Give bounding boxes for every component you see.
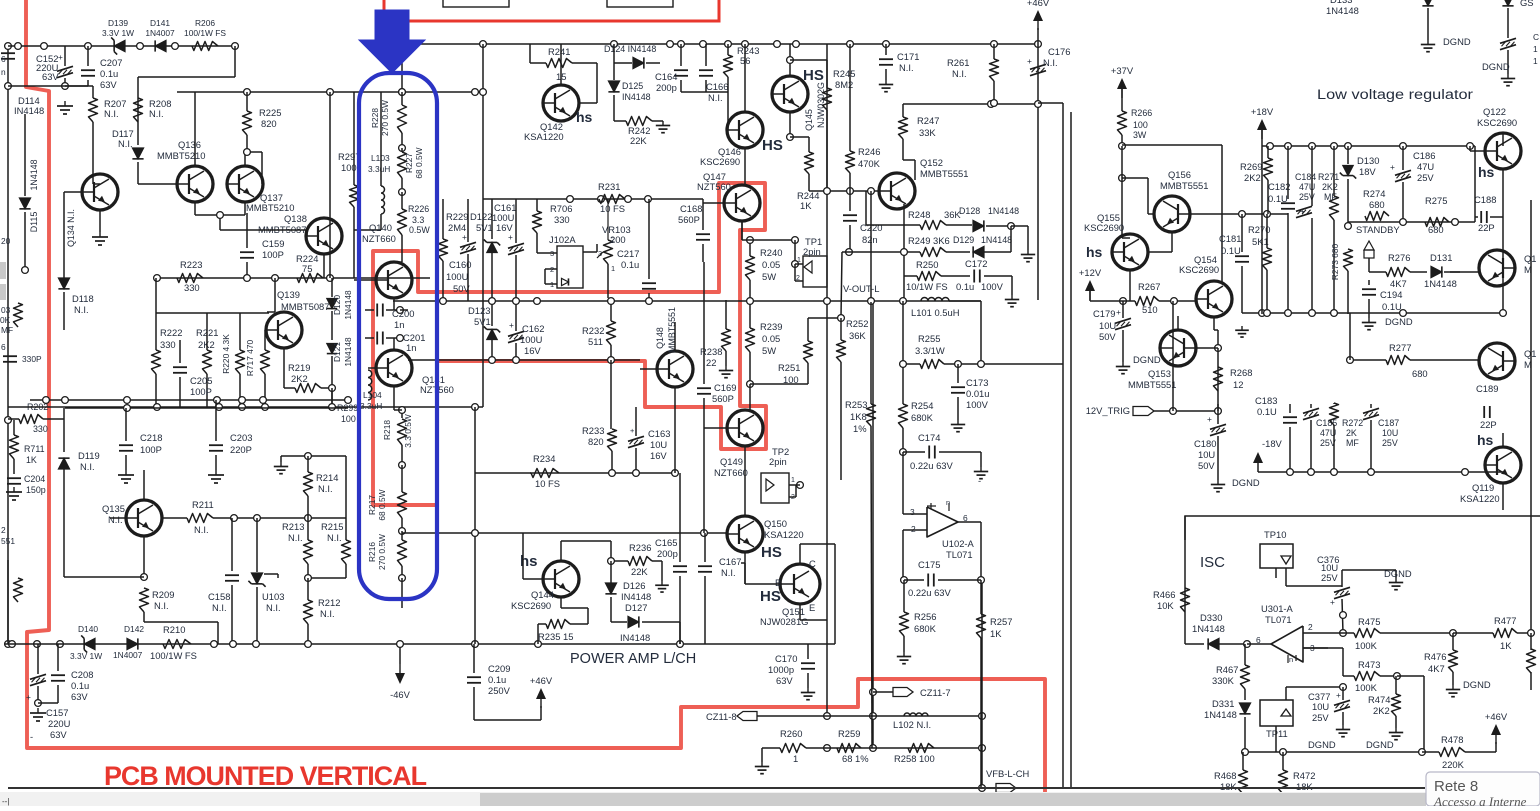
svg-text:100U: 100U: [446, 271, 469, 282]
svg-text:220U: 220U: [48, 718, 71, 729]
svg-text:C: C: [809, 558, 816, 569]
svg-text:330: 330: [554, 214, 570, 225]
svg-text:N.I.: N.I.: [108, 514, 123, 525]
svg-text:KSC2690: KSC2690: [700, 156, 740, 167]
node R211 row: [231, 515, 238, 522]
test point TP11: [1260, 700, 1293, 726]
transistor Q148 MMBT5551: [657, 351, 693, 387]
svg-text:+18V: +18V: [1251, 106, 1274, 117]
svg-text:Q149: Q149: [720, 456, 743, 467]
svg-text:1N4148: 1N4148: [343, 290, 353, 320]
svg-text:C175: C175: [918, 559, 940, 570]
transistor Q137 MMBT5210: [227, 166, 263, 202]
node R227-R226: [399, 189, 406, 196]
svg-text:1N4007: 1N4007: [113, 650, 143, 660]
wire Q149 base: [704, 427, 728, 429]
svg-text:-: -: [978, 475, 981, 486]
capacitor C186 47U 25V polarized: [1395, 170, 1411, 175]
capacitor C209 0.1u 250V: [467, 676, 481, 678]
capacitor C203 220P: [209, 444, 223, 446]
node rail y278: [154, 275, 161, 282]
svg-text:R241: R241: [548, 46, 570, 57]
svg-text:0.1U: 0.1U: [1221, 245, 1241, 256]
svg-text:Q145: Q145: [804, 109, 814, 131]
node R475 right: [1450, 630, 1457, 637]
svg-text:551: 551: [1, 536, 15, 546]
svg-text:R235 15: R235 15: [538, 631, 573, 642]
power +18V: [1257, 119, 1267, 130]
capacitor C158 N.I.: [225, 574, 239, 576]
svg-text:18V: 18V: [1359, 166, 1376, 177]
svg-text:ISC: ISC: [1200, 554, 1225, 571]
svg-text:0.05: 0.05: [762, 259, 780, 270]
svg-text:+12V: +12V: [1079, 267, 1102, 278]
resistor R254 680K: [899, 404, 908, 428]
resistor R267 510: [1135, 297, 1159, 306]
svg-text:63V: 63V: [776, 675, 793, 686]
svg-text:330: 330: [184, 282, 200, 293]
capacitor C201 1n: [376, 332, 378, 345]
svg-text:50V: 50V: [1198, 460, 1215, 471]
ground R236: [661, 561, 663, 581]
svg-text:D122: D122: [470, 211, 492, 222]
svg-text:+37V: +37V: [1111, 65, 1134, 76]
resistor R233 820: [608, 429, 617, 451]
test point TP10: [1260, 544, 1293, 568]
resistor R220 4.3K: [236, 350, 245, 374]
node Q153 collector: [1215, 345, 1222, 352]
node R266: [1119, 143, 1126, 150]
svg-text:2K2: 2K2: [291, 373, 308, 384]
svg-text:1: 1: [611, 264, 615, 273]
svg-text:5W: 5W: [762, 271, 776, 282]
svg-text:-: -: [30, 731, 33, 742]
transistor Q119 KSA1220 hs: [1485, 447, 1521, 483]
svg-text:+46V: +46V: [530, 675, 553, 686]
rail y644 bottom: [5, 643, 835, 645]
svg-text:100/1W FS: 100/1W FS: [150, 650, 197, 661]
ground Q134: [99, 210, 101, 232]
svg-text:MMBT5210: MMBT5210: [246, 202, 294, 213]
svg-text:16V: 16V: [496, 222, 513, 233]
svg-text:+: +: [1300, 206, 1305, 216]
svg-text:C205: C205: [190, 375, 212, 386]
wire Q134 base: [64, 191, 82, 193]
svg-text:HS: HS: [761, 544, 782, 561]
capacitor C187 10U 25V polarized: [1363, 408, 1379, 413]
svg-text:R257: R257: [990, 616, 1012, 627]
resistor R268 12: [1214, 367, 1223, 391]
svg-text:C170: C170: [775, 653, 797, 664]
resistor R478 220K: [1439, 748, 1465, 757]
resistor R271 2K2 MF: [1330, 196, 1339, 220]
svg-text:R211: R211: [192, 499, 214, 510]
node R218-R217: [399, 462, 406, 469]
signal arrow standby: [1364, 241, 1374, 250]
svg-text:330K: 330K: [1212, 675, 1235, 686]
svg-text:C208: C208: [71, 669, 93, 680]
svg-text:2K: 2K: [1346, 428, 1357, 438]
svg-text:R239: R239: [760, 321, 782, 332]
svg-text:N.I.: N.I.: [104, 108, 119, 119]
svg-text:63V: 63V: [71, 691, 88, 702]
resistor R297 100: [350, 185, 359, 207]
svg-text:3.3: 3.3: [412, 215, 424, 225]
ground D133 DGND: [1427, 40, 1429, 45]
resistor R256 680K: [900, 612, 909, 636]
capacitor C157 220U 63V polarized: [30, 674, 46, 679]
ground C204: [13, 487, 15, 492]
diode D120 1N4148 vertical: [331, 278, 333, 297]
svg-text:1: 1: [791, 477, 795, 484]
power +46V top: [1037, 28, 1039, 44]
node rail y199: [567, 196, 574, 203]
blue rounded rectangle: [359, 73, 437, 599]
svg-text:R277: R277: [1389, 342, 1411, 353]
node blue col top: [399, 89, 406, 96]
svg-text:22P: 22P: [1480, 419, 1497, 430]
capacitor fragment right polarized: [1500, 38, 1516, 43]
svg-text:L101 0.5uH: L101 0.5uH: [911, 307, 959, 318]
svg-text:10U: 10U: [1382, 428, 1398, 438]
svg-text:+: +: [26, 692, 31, 702]
node R239 bottom: [747, 381, 754, 388]
transistor Q121 fragment: [1479, 250, 1515, 286]
node bottom rail left: [9, 641, 16, 648]
white box fragment 2: [607, 0, 673, 7]
resistor R242 22K: [626, 117, 652, 126]
ground C173: [957, 420, 959, 425]
zener D122 5V1 vertical: [487, 242, 497, 252]
svg-text:R214: R214: [316, 472, 338, 483]
transistor Q142 KSA1220: [543, 85, 579, 121]
svg-text:R227: R227: [404, 153, 414, 173]
svg-text:1: 1: [1533, 56, 1538, 66]
svg-text:R249 3K6: R249 3K6: [908, 235, 950, 246]
svg-text:0.05: 0.05: [762, 333, 780, 344]
node R228-R227: [399, 145, 406, 152]
svg-text:C186: C186: [1413, 150, 1435, 161]
bottom separator line: [8, 787, 1425, 789]
svg-text:R274: R274: [1363, 188, 1385, 199]
capacitor C200 1n: [376, 304, 378, 317]
capacitor C188 22P: [1480, 211, 1482, 223]
wire x982 vertical: [981, 577, 983, 788]
wire blue column vertical: [401, 44, 403, 92]
diode D330 1N4148: [1208, 638, 1219, 649]
svg-text:VFB-L-CH: VFB-L-CH: [986, 768, 1029, 779]
wire from R206 to D117: [234, 46, 236, 77]
svg-text:KSA1220: KSA1220: [524, 131, 564, 142]
rail y752 ISC: [1245, 751, 1422, 753]
svg-text:D120: D120: [332, 295, 342, 315]
resistor R215 N.I.: [342, 540, 351, 564]
capacitor C166 N.I.: [699, 69, 713, 71]
svg-text:4K7: 4K7: [1428, 663, 1445, 674]
svg-text:DGND: DGND: [1463, 679, 1491, 690]
ground R256: [903, 652, 905, 657]
transistor Q122 KSC2690 hs: [1485, 133, 1521, 169]
svg-text:1N4148: 1N4148: [1192, 623, 1225, 634]
rail y199 R231 row: [483, 198, 703, 200]
svg-text:R251: R251: [778, 362, 800, 373]
svg-text:MF: MF: [1, 325, 13, 335]
resistor R210 100/1W FS: [163, 640, 191, 649]
resistor R269 2K2: [1264, 158, 1273, 180]
svg-text:N.I.: N.I.: [721, 567, 736, 578]
resistor R239 0.05 5W: [746, 328, 755, 352]
ground C194 DGND: [1368, 318, 1370, 323]
wire Q155 emitter: [1122, 237, 1130, 239]
zener D130 18V: [1343, 166, 1353, 176]
rail y314 regulator mid: [1242, 312, 1503, 314]
ground C377 DGND: [1342, 725, 1344, 730]
svg-text:C169: C169: [714, 382, 736, 393]
svg-text:68 0.5W: 68 0.5W: [377, 489, 387, 520]
diode D118 N.I. vertical: [58, 278, 69, 289]
wire opamp pin3: [1303, 647, 1328, 649]
resistor R208 N.I.: [134, 98, 143, 122]
resistor R211 N.I.: [187, 514, 213, 523]
svg-text:R210: R210: [163, 624, 185, 635]
svg-text:0.1U: 0.1U: [1382, 301, 1402, 312]
svg-text:R260: R260: [780, 728, 802, 739]
svg-text:+: +: [509, 320, 514, 330]
svg-text:TP10: TP10: [1264, 529, 1286, 540]
resistor R244 1K: [805, 152, 814, 174]
transistor Q136 MMBT5210: [177, 166, 213, 202]
resistor R245 8M2: [823, 88, 832, 110]
wire Q137 collector: [244, 152, 246, 167]
svg-text:DGND: DGND: [1482, 61, 1510, 72]
resistor R473 100K: [1354, 672, 1380, 681]
node rail y44: [399, 41, 406, 48]
resistor R226 3.3 0.5W: [398, 209, 407, 235]
svg-text:R475: R475: [1358, 616, 1380, 627]
rail y44 main top: [396, 43, 1038, 45]
wire Q154 emitter: [1213, 317, 1215, 330]
capacitor C180 10U 50V polarized: [1210, 424, 1226, 429]
svg-text:63V: 63V: [100, 79, 117, 90]
resistor R232 511: [607, 321, 616, 345]
svg-text:N.I.: N.I.: [266, 602, 281, 613]
resistor R259 68 1%: [837, 744, 861, 753]
svg-text:STANDBY: STANDBY: [1356, 224, 1400, 235]
svg-text:N.I.: N.I.: [288, 532, 303, 543]
svg-text:HS: HS: [803, 67, 824, 84]
svg-text:680K: 680K: [911, 412, 934, 423]
resistor R228 270 0.5W: [398, 105, 407, 133]
svg-text:-18V: -18V: [1262, 438, 1283, 449]
inductor L103 3.3uH: [381, 186, 385, 214]
svg-text:22K: 22K: [631, 566, 648, 577]
diode D125 IN4148 vertical: [608, 81, 619, 92]
svg-text:R259: R259: [838, 728, 860, 739]
resistor R717 470: [261, 350, 270, 374]
node x873: [870, 689, 877, 696]
svg-text:5K1: 5K1: [1252, 236, 1269, 247]
capacitor C167 N.I.: [698, 565, 712, 567]
rail y400 upper: [30, 399, 348, 401]
wire y473 row: [530, 472, 675, 474]
svg-text:100P: 100P: [190, 386, 212, 397]
svg-text:0.22u 63V: 0.22u 63V: [908, 587, 951, 598]
svg-text:0.1u: 0.1u: [100, 68, 118, 79]
svg-text:68 1%: 68 1%: [842, 753, 869, 764]
svg-text:R240: R240: [760, 247, 782, 258]
node R255: [900, 361, 907, 368]
diode D126 IN4148 vertical: [605, 583, 616, 594]
resistor R212 N.I.: [304, 600, 313, 624]
svg-text:D127: D127: [625, 602, 647, 613]
blue arrow: [359, 10, 425, 73]
svg-text:C176: C176: [1048, 46, 1070, 57]
svg-text:R276: R276: [1388, 252, 1410, 263]
svg-text:C181: C181: [1219, 233, 1241, 244]
svg-text:R231: R231: [598, 181, 620, 192]
node C200: [397, 307, 404, 314]
capacitor C163 10U 16V polarized: [628, 436, 644, 441]
svg-text:C182: C182: [1268, 181, 1290, 192]
rail y103: [903, 103, 1039, 105]
svg-text:+: +: [1116, 307, 1121, 317]
ground C152: [64, 101, 66, 106]
svg-text:C187: C187: [1378, 418, 1399, 428]
node y191: [824, 188, 831, 195]
svg-text:DGND: DGND: [1232, 477, 1260, 488]
svg-text:TL071: TL071: [1265, 614, 1292, 625]
svg-text:R473: R473: [1358, 659, 1380, 670]
svg-text:330: 330: [33, 424, 48, 434]
svg-text:E: E: [809, 602, 815, 613]
diode D121 1N4148 vertical: [327, 344, 337, 354]
resistor R260 1: [780, 744, 806, 753]
transistor Q147 NZT560: [724, 185, 760, 221]
svg-text:+46V: +46V: [1027, 0, 1050, 8]
svg-text:560P: 560P: [712, 393, 734, 404]
svg-text:MMBT5551: MMBT5551: [1160, 180, 1208, 191]
node Q147 emitter: [747, 237, 754, 244]
svg-text:MMBT5087: MMBT5087: [281, 301, 329, 312]
capacitor C162 100U 16V polarized: [508, 331, 524, 336]
svg-text:16V: 16V: [650, 450, 667, 461]
svg-text:+: +: [630, 426, 634, 435]
capacitor C176 N.I. polarized: [1030, 64, 1046, 69]
connector VFB-L-CH: [979, 785, 986, 792]
svg-text:C204: C204: [24, 474, 45, 484]
capacitor C161 100U 16V polarized: [508, 243, 524, 248]
rail y191 Q152 base: [809, 190, 880, 192]
svg-text:IN4148: IN4148: [14, 105, 44, 116]
wire R268 column: [1217, 348, 1219, 411]
svg-text:U301-A: U301-A: [1261, 603, 1294, 614]
svg-text:R477: R477: [1494, 615, 1516, 626]
svg-text:+: +: [1390, 162, 1395, 172]
svg-text:C165: C165: [655, 537, 677, 548]
capacitor C168 560P: [696, 233, 710, 235]
svg-text:R228: R228: [370, 108, 380, 128]
svg-text:L104: L104: [363, 390, 382, 400]
svg-text:1K: 1K: [26, 455, 37, 465]
svg-text:TP11: TP11: [1266, 728, 1288, 739]
op-amp U301-A TL071: [1271, 626, 1303, 662]
capacitor C217 0.1u: [642, 282, 656, 284]
svg-text:1N4148: 1N4148: [1204, 709, 1237, 720]
svg-text:1: 1: [793, 753, 798, 764]
ground C172: [1011, 295, 1013, 300]
wire x871 vertical: [870, 191, 872, 302]
svg-text:Low voltage regulator: Low voltage regulator: [1317, 87, 1474, 102]
capacitor C172 0.1u 100V: [973, 270, 975, 283]
svg-text:511: 511: [588, 336, 603, 347]
svg-text:680: 680: [1428, 224, 1444, 235]
svg-text:D141: D141: [150, 18, 170, 28]
svg-text:+: +: [1336, 690, 1341, 700]
node R236 left: [608, 558, 615, 565]
node left bus: [5, 43, 12, 50]
svg-text:R272: R272: [1342, 418, 1363, 428]
svg-text:0.1u: 0.1u: [488, 674, 506, 685]
svg-text:100: 100: [1133, 120, 1148, 130]
resistor R466 10K: [1181, 588, 1190, 612]
svg-text:KSC2690: KSC2690: [511, 600, 551, 611]
svg-text:MMBT5210: MMBT5210: [157, 150, 205, 161]
svg-text:R229: R229: [446, 211, 468, 222]
tooltip Rete 8: [1426, 772, 1540, 806]
ground C376 DGND: [1395, 570, 1397, 578]
svg-text:100P: 100P: [262, 249, 284, 260]
resistor R207 N.I.: [89, 98, 98, 122]
wire Q141 to R218: [393, 386, 395, 410]
ground R476 DGND: [1452, 685, 1454, 690]
wire y360 row: [408, 359, 640, 361]
svg-text:C189: C189: [1476, 383, 1498, 394]
bottom scrollbar track: [0, 792, 1426, 806]
svg-text:100P: 100P: [140, 444, 162, 455]
svg-text:5V1: 5V1: [474, 316, 491, 327]
svg-text:C166: C166: [706, 81, 728, 92]
node rail y644: [211, 641, 218, 648]
svg-text:Q134 N.I.: Q134 N.I.: [66, 209, 76, 247]
resistor right edge fragment: [1527, 649, 1536, 673]
svg-text:R706: R706: [550, 203, 572, 214]
svg-text:R234: R234: [533, 453, 555, 464]
resistor R255 3.3/1W: [920, 360, 944, 369]
svg-text:DGND: DGND: [1384, 568, 1412, 579]
resistor R468 18K: [1239, 770, 1248, 794]
node C201: [397, 335, 404, 342]
node y360: [489, 357, 496, 364]
capacitor C164 200p: [674, 69, 688, 71]
svg-text:1N4148: 1N4148: [988, 206, 1019, 216]
svg-text:DGND: DGND: [1385, 316, 1413, 327]
svg-text:N.I.: N.I.: [899, 62, 914, 73]
wire x483 vertical: [482, 44, 484, 407]
svg-text:C168: C168: [680, 203, 702, 214]
svg-text:IN4148: IN4148: [622, 92, 651, 102]
svg-text:3W: 3W: [1133, 130, 1147, 140]
node R217-R216: [399, 528, 406, 535]
wire x827 vertical: [826, 44, 828, 716]
diode D127 IN4148: [628, 616, 639, 627]
svg-text:C: C: [1533, 32, 1539, 42]
svg-text:N.I.: N.I.: [80, 461, 95, 472]
red top box: [384, 0, 719, 21]
transistor Q135 N.I.: [126, 500, 162, 536]
svg-text:MF: MF: [1324, 192, 1337, 202]
wire Q140 base: [354, 279, 377, 281]
svg-text:Q148: Q148: [655, 327, 665, 349]
